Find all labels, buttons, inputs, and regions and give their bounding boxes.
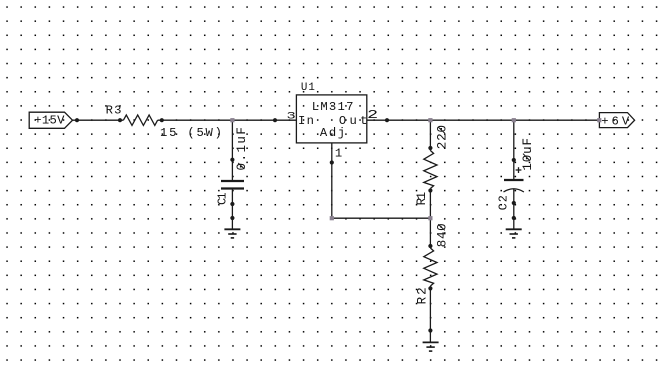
svg-text:0.1uF: 0.1uF xyxy=(235,127,249,170)
svg-text:1: 1 xyxy=(335,146,342,160)
svg-text:+6V: +6V xyxy=(601,115,630,129)
svg-text:Adj: Adj xyxy=(320,126,345,140)
svg-text:U1: U1 xyxy=(301,82,315,94)
svg-text:C1: C1 xyxy=(217,192,230,204)
svg-text:+15V: +15V xyxy=(34,114,65,128)
svg-text:2: 2 xyxy=(367,108,378,122)
svg-text:220: 220 xyxy=(436,125,450,149)
svg-text:R3: R3 xyxy=(106,104,122,118)
svg-text:840: 840 xyxy=(436,223,450,247)
svg-text:15 (5W): 15 (5W) xyxy=(160,126,222,140)
svg-text:10uF: 10uF xyxy=(521,138,535,171)
svg-text:LM317: LM317 xyxy=(312,100,354,114)
svg-text:C2: C2 xyxy=(497,195,510,210)
svg-text:3: 3 xyxy=(287,110,296,122)
svg-text:R2: R2 xyxy=(415,287,429,304)
svg-text:R1: R1 xyxy=(415,192,429,206)
svg-text:In: In xyxy=(298,114,314,128)
